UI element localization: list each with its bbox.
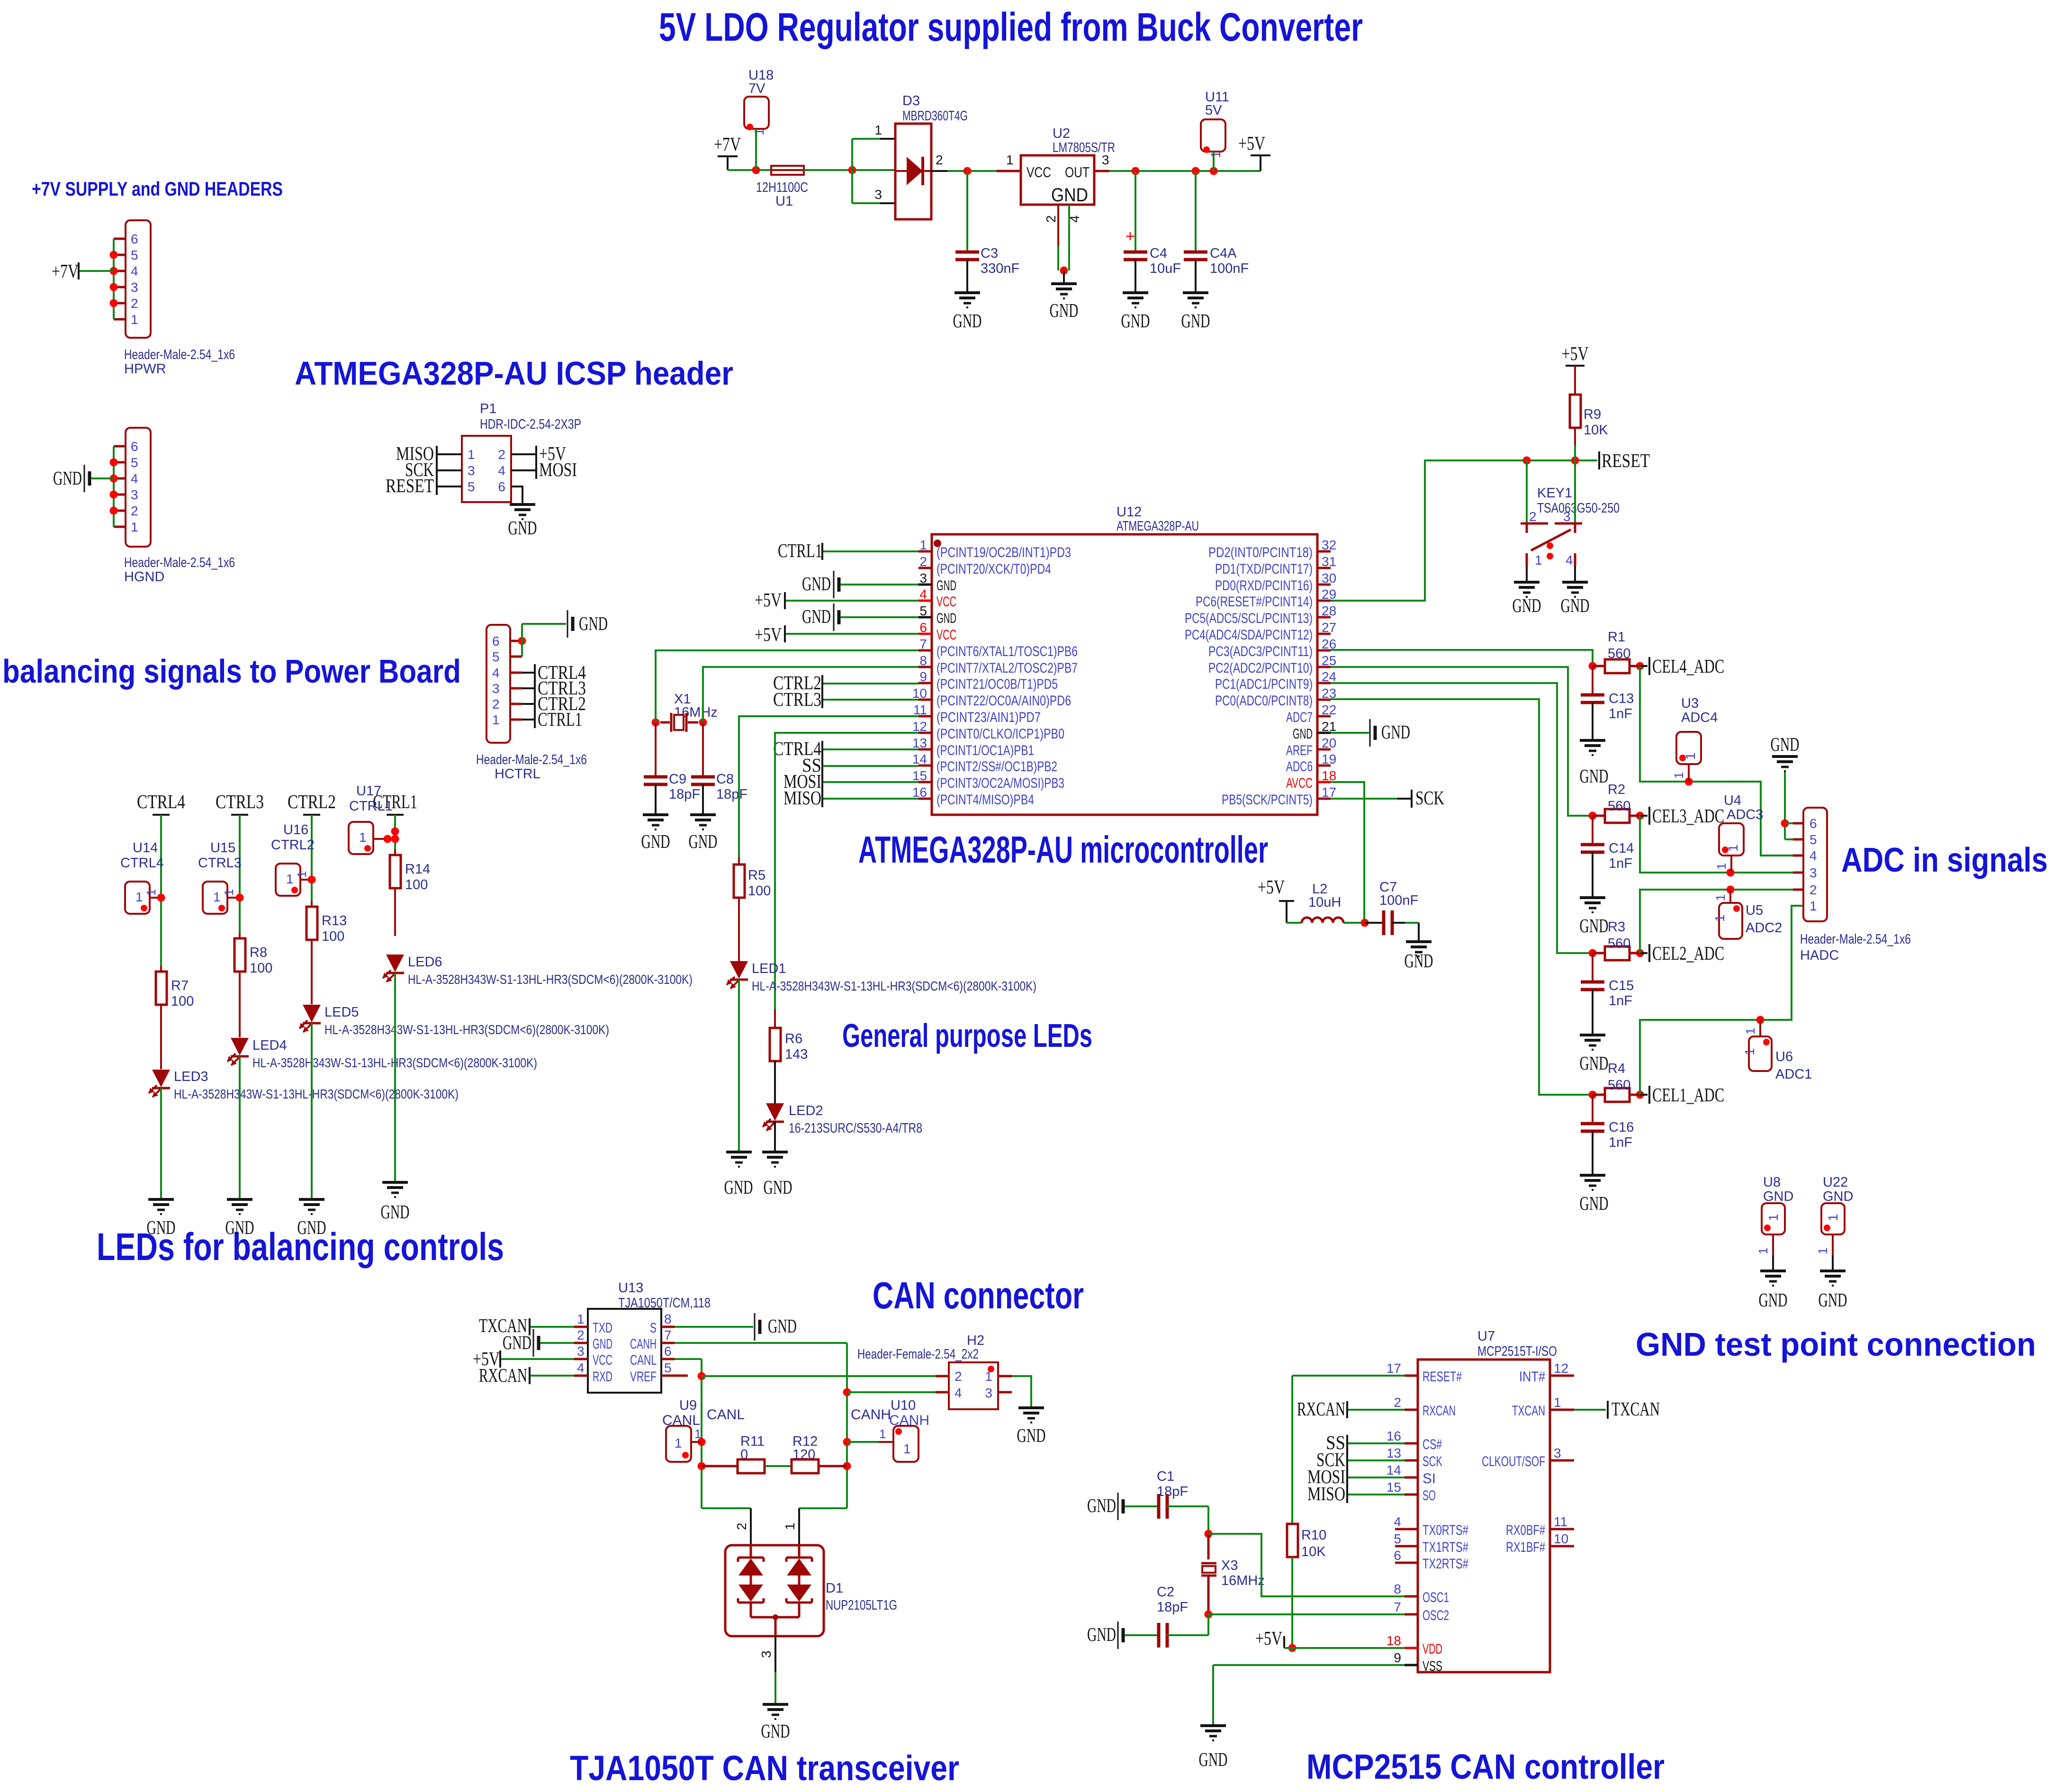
svg-text:HGND: HGND [124,569,164,585]
svg-text:U2: U2 [1053,126,1070,141]
svg-text:SO: SO [1423,1488,1436,1504]
svg-text:4: 4 [954,1386,962,1400]
svg-text:PC0(ADC0/PCINT8): PC0(ADC0/PCINT8) [1215,693,1313,709]
svg-text:1: 1 [879,1427,886,1441]
svg-text:CEL4_ADC: CEL4_ADC [1652,655,1724,677]
svg-text:ADC in signals: ADC in signals [1841,841,2048,879]
svg-text:CTRL1: CTRL1 [349,799,393,814]
svg-text:PC5(ADC5/SCL/PCINT13): PC5(ADC5/SCL/PCINT13) [1185,611,1313,626]
svg-text:7: 7 [919,637,927,651]
svg-text:Header-Male-2.54_1x6: Header-Male-2.54_1x6 [124,347,235,362]
svg-text:MCP2515T-I/SO: MCP2515T-I/SO [1477,1344,1557,1359]
svg-text:RESET#: RESET# [1423,1369,1462,1385]
svg-text:4: 4 [1566,553,1573,567]
svg-text:4: 4 [919,587,927,602]
svg-text:1nF: 1nF [1609,1135,1632,1150]
svg-text:+5V: +5V [755,623,782,645]
svg-text:C2: C2 [1157,1585,1174,1600]
svg-text:PC2(ADC2/PCINT10): PC2(ADC2/PCINT10) [1208,660,1313,676]
svg-text:2: 2 [131,504,138,518]
svg-text:GND: GND [508,517,537,539]
svg-text:(PCINT3/OC2A/MOSI)PB3: (PCINT3/OC2A/MOSI)PB3 [936,775,1064,791]
svg-text:7: 7 [664,1328,672,1342]
svg-text:VCC: VCC [593,1352,612,1368]
svg-text:24: 24 [1322,669,1336,684]
svg-text:2: 2 [734,1522,749,1530]
svg-text:100: 100 [405,877,428,892]
svg-text:TXCAN: TXCAN [1612,1398,1660,1420]
svg-text:CLKOUT/SOF: CLKOUT/SOF [1482,1454,1545,1469]
svg-text:TX2RTS#: TX2RTS# [1423,1556,1468,1572]
svg-text:OSC2: OSC2 [1423,1608,1449,1623]
svg-text:LED2: LED2 [789,1103,823,1118]
svg-text:HADC: HADC [1800,948,1839,963]
svg-text:1: 1 [359,830,367,845]
svg-text:100nF: 100nF [1210,261,1249,276]
svg-text:GND: GND [689,830,718,852]
svg-text:Header-Male-2.54_1x6: Header-Male-2.54_1x6 [476,752,587,767]
svg-text:330nF: 330nF [981,261,1019,276]
svg-text:H2: H2 [967,1333,984,1348]
svg-text:CANH: CANH [889,1413,929,1428]
svg-text:560: 560 [1608,799,1630,814]
svg-text:1: 1 [131,520,138,534]
svg-text:1nF: 1nF [1609,706,1632,721]
svg-text:5V LDO Regulator supplied from: 5V LDO Regulator supplied from Buck Conv… [659,5,1363,49]
svg-text:+5V: +5V [1258,876,1285,898]
svg-text:14: 14 [1387,1463,1401,1477]
svg-text:19: 19 [1322,752,1336,766]
svg-text:U6: U6 [1775,1049,1793,1064]
svg-text:12: 12 [1554,1361,1568,1376]
svg-text:2: 2 [954,1369,962,1384]
svg-text:5: 5 [468,479,475,494]
svg-text:LED5: LED5 [324,1005,359,1020]
svg-text:CANH: CANH [630,1336,657,1352]
svg-text:2: 2 [577,1328,585,1342]
svg-text:VCC: VCC [1026,164,1051,180]
svg-text:9: 9 [919,669,927,684]
svg-text:20: 20 [1322,736,1336,750]
svg-text:15: 15 [912,768,927,783]
svg-text:3: 3 [1554,1446,1561,1460]
svg-text:ATMEGA328P-AU ICSP header: ATMEGA328P-AU ICSP header [295,355,733,392]
svg-text:3: 3 [492,681,500,696]
svg-text:8: 8 [664,1312,672,1326]
svg-text:1: 1 [1766,1214,1781,1221]
svg-text:6: 6 [498,479,505,494]
svg-text:1: 1 [1713,894,1728,901]
svg-text:6: 6 [1810,816,1817,831]
svg-text:15: 15 [1387,1480,1401,1495]
svg-text:5: 5 [131,455,138,470]
svg-text:1: 1 [1756,1248,1770,1254]
svg-text:11: 11 [1554,1514,1567,1529]
svg-text:CTRL1: CTRL1 [778,540,822,561]
svg-text:CS#: CS# [1423,1437,1442,1452]
svg-text:1: 1 [1006,153,1014,167]
svg-text:8: 8 [919,653,927,668]
svg-text:GND: GND [768,1315,797,1337]
svg-text:1nF: 1nF [1609,856,1632,871]
svg-text:R10: R10 [1301,1528,1326,1543]
svg-text:18: 18 [1322,768,1336,783]
svg-text:INT#: INT# [1519,1369,1545,1385]
svg-text:GND test point connection: GND test point connection [1636,1326,2036,1363]
svg-text:2: 2 [936,153,943,167]
svg-text:3: 3 [1810,865,1817,880]
svg-text:TSA063G50-250: TSA063G50-250 [1537,501,1620,516]
svg-text:balancing signals to Power Boa: balancing signals to Power Board [2,653,461,690]
svg-text:CTRL2: CTRL2 [288,791,336,812]
svg-text:1nF: 1nF [1609,993,1632,1009]
svg-text:C4A: C4A [1210,246,1237,261]
svg-text:1: 1 [286,872,294,886]
svg-text:C15: C15 [1609,978,1634,993]
svg-text:RESET: RESET [1602,450,1650,471]
svg-text:CTRL2: CTRL2 [271,837,315,853]
svg-text:CTRL1: CTRL1 [538,708,582,730]
svg-text:1: 1 [468,447,475,462]
svg-text:1: 1 [1742,1048,1757,1055]
svg-text:1: 1 [874,123,882,137]
svg-text:GND: GND [802,605,831,627]
svg-text:560: 560 [1608,646,1630,661]
svg-text:6: 6 [492,634,500,648]
svg-text:(PCINT19/OC2B/INT1)PD3: (PCINT19/OC2B/INT1)PD3 [936,545,1071,560]
svg-text:GND: GND [1561,594,1590,616]
svg-text:16-213SURC/S530-A4/TR8: 16-213SURC/S530-A4/TR8 [789,1121,922,1136]
svg-text:6: 6 [919,620,927,635]
svg-text:CTRL3: CTRL3 [773,688,821,710]
svg-text:25: 25 [1322,653,1336,668]
svg-text:GND: GND [1513,594,1541,616]
svg-text:(PCINT23/AIN1)PD7: (PCINT23/AIN1)PD7 [936,710,1041,725]
svg-text:7V: 7V [748,81,765,96]
svg-text:4: 4 [577,1360,585,1375]
svg-text:Header-Male-2.54_1x6: Header-Male-2.54_1x6 [1800,932,1911,947]
svg-text:29: 29 [1322,587,1336,602]
svg-text:21: 21 [1322,719,1336,734]
svg-text:RXCAN: RXCAN [1423,1403,1456,1419]
svg-text:GND: GND [225,1216,254,1238]
svg-text:(PCINT4/MISO)PB4: (PCINT4/MISO)PB4 [936,792,1034,808]
svg-text:TX0RTS#: TX0RTS# [1423,1522,1468,1538]
svg-text:100nF: 100nF [1379,893,1418,908]
svg-text:100: 100 [171,994,194,1009]
svg-text:(PCINT2/SS#/OC1B)PB2: (PCINT2/SS#/OC1B)PB2 [936,759,1057,774]
svg-text:GND: GND [381,1201,410,1223]
svg-text:3: 3 [874,187,882,202]
svg-text:8: 8 [1394,1582,1401,1596]
svg-text:3: 3 [759,1650,774,1658]
svg-text:R5: R5 [748,868,765,883]
svg-text:GND: GND [641,830,670,852]
svg-text:5: 5 [131,248,138,262]
svg-text:(PCINT7/XTAL2/TOSC2)PB7: (PCINT7/XTAL2/TOSC2)PB7 [936,660,1078,676]
svg-text:D3: D3 [902,93,920,108]
svg-text:LED1: LED1 [752,961,786,976]
svg-text:VDD: VDD [1423,1641,1442,1657]
svg-text:MISO: MISO [783,787,821,809]
svg-text:PC4(ADC4/SDA/PCINT12): PC4(ADC4/SDA/PCINT12) [1185,627,1313,643]
svg-text:C3: C3 [981,246,998,261]
svg-text:U10: U10 [891,1398,916,1413]
svg-text:GND: GND [953,310,982,332]
svg-text:4: 4 [1067,215,1082,223]
svg-text:U16: U16 [283,822,308,837]
svg-text:1: 1 [1554,1395,1561,1410]
svg-text:TXD: TXD [593,1320,612,1336]
svg-text:12H1100C: 12H1100C [756,180,808,195]
svg-text:PD1(TXD/PCINT17): PD1(TXD/PCINT17) [1215,561,1313,577]
svg-text:OUT: OUT [1065,164,1090,180]
svg-text:VSS: VSS [1423,1658,1442,1674]
svg-text:HL-A-3528H343W-S1-13HL-HR3(SDC: HL-A-3528H343W-S1-13HL-HR3(SDCM<6)(2800K… [324,1022,609,1037]
svg-text:HL-A-3528H343W-S1-13HL-HR3(SDC: HL-A-3528H343W-S1-13HL-HR3(SDCM<6)(2800K… [752,979,1036,993]
svg-text:+5V: +5V [1562,342,1589,364]
svg-text:CANL: CANL [707,1407,745,1423]
svg-text:28: 28 [1322,603,1336,618]
svg-text:5V: 5V [1205,103,1222,118]
svg-text:GND: GND [802,573,831,594]
svg-text:LED3: LED3 [174,1069,208,1084]
svg-text:RXD: RXD [593,1369,612,1385]
svg-text:MOSI: MOSI [539,459,577,480]
svg-text:(PCINT6/XTAL1/TOSC1)PB6: (PCINT6/XTAL1/TOSC1)PB6 [936,644,1078,659]
svg-text:PC3(ADC3/PCINT11): PC3(ADC3/PCINT11) [1208,644,1313,659]
svg-text:R9: R9 [1584,407,1601,422]
svg-text:5: 5 [1394,1531,1401,1546]
svg-text:GND: GND [1293,726,1313,742]
svg-text:17: 17 [1387,1361,1401,1376]
svg-text:GND: GND [579,612,608,634]
svg-text:1: 1 [222,889,236,896]
svg-text:GND: GND [1050,299,1079,321]
svg-text:10: 10 [912,686,927,701]
svg-text:GND: GND [1087,1623,1116,1645]
svg-text:1: 1 [1535,553,1542,567]
svg-text:7: 7 [1394,1600,1401,1614]
svg-text:560: 560 [1608,1078,1630,1093]
svg-text:6: 6 [131,232,138,246]
svg-text:GND: GND [1381,721,1410,743]
svg-text:+7V SUPPLY and GND HEADERS: +7V SUPPLY and GND HEADERS [32,178,283,200]
svg-text:+: + [1126,227,1135,245]
svg-text:GND: GND [1017,1424,1046,1446]
svg-text:C8: C8 [716,772,734,787]
svg-text:1: 1 [694,1427,701,1441]
svg-text:1: 1 [1672,772,1686,779]
svg-text:R7: R7 [171,978,189,993]
svg-text:VCC: VCC [936,594,956,610]
svg-text:17: 17 [1322,785,1336,800]
svg-text:MBRD360T4G: MBRD360T4G [902,108,968,124]
svg-text:RXCAN: RXCAN [1297,1398,1345,1420]
svg-text:1: 1 [135,890,143,904]
svg-text:6: 6 [1394,1548,1401,1563]
svg-text:1: 1 [213,890,221,904]
svg-text:GND: GND [1405,950,1433,972]
svg-text:U15: U15 [210,840,235,855]
svg-text:CEL1_ADC: CEL1_ADC [1652,1084,1724,1106]
svg-text:1: 1 [131,312,138,327]
svg-text:C4: C4 [1150,246,1167,261]
svg-text:TXCAN: TXCAN [1512,1403,1545,1419]
svg-text:22: 22 [1322,702,1336,717]
svg-text:16: 16 [1387,1429,1401,1443]
svg-text:3: 3 [1102,153,1109,167]
svg-text:HCTRL: HCTRL [495,766,540,782]
svg-text:PD0(RXD/PCINT16): PD0(RXD/PCINT16) [1215,578,1313,594]
svg-text:VCC: VCC [936,627,956,643]
svg-text:9: 9 [1394,1650,1401,1665]
svg-text:MCP2515 CAN controller: MCP2515 CAN controller [1306,1747,1665,1786]
svg-text:1: 1 [783,1522,797,1530]
svg-text:100: 100 [250,961,272,976]
svg-text:GND: GND [1759,1289,1788,1311]
svg-text:ADC6: ADC6 [1286,759,1313,774]
svg-text:U5: U5 [1746,903,1763,918]
svg-text:GND: GND [1580,915,1609,937]
svg-text:R3: R3 [1608,919,1625,935]
svg-text:HDR-IDC-2.54-2X3P: HDR-IDC-2.54-2X3P [480,417,581,432]
svg-text:C16: C16 [1609,1120,1634,1135]
svg-text:CANH: CANH [851,1407,891,1423]
svg-text:6: 6 [131,439,138,454]
svg-text:RXCAN: RXCAN [479,1364,527,1386]
svg-text:AREF: AREF [1286,743,1313,758]
svg-text:(PCINT22/OC0A/AIN0)PD6: (PCINT22/OC0A/AIN0)PD6 [936,693,1071,709]
svg-text:1: 1 [492,712,500,727]
svg-text:2: 2 [1810,882,1817,897]
svg-text:(PCINT20/XCK/T0)PD4: (PCINT20/XCK/T0)PD4 [936,561,1051,577]
svg-text:TX1RTS#: TX1RTS# [1423,1540,1468,1555]
svg-text:1: 1 [919,538,927,552]
svg-text:LED4: LED4 [252,1038,287,1053]
svg-text:11: 11 [913,702,927,717]
svg-text:6: 6 [664,1344,672,1359]
svg-text:CEL3_ADC: CEL3_ADC [1652,805,1724,827]
svg-text:ADC4: ADC4 [1681,710,1718,725]
svg-text:GND: GND [724,1176,753,1198]
svg-text:PB5(SCK/PCINT5): PB5(SCK/PCINT5) [1222,792,1313,808]
svg-text:GND: GND [1199,1748,1228,1770]
svg-text:GND: GND [1823,1189,1853,1204]
svg-text:1: 1 [1714,863,1729,870]
svg-text:13: 13 [1387,1446,1401,1460]
svg-text:100: 100 [322,929,344,944]
svg-text:14: 14 [912,752,927,766]
svg-text:3: 3 [131,487,138,502]
svg-text:12: 12 [912,719,927,734]
svg-text:R14: R14 [405,862,430,877]
svg-text:16: 16 [912,785,927,800]
svg-text:10K: 10K [1584,423,1608,438]
svg-text:4: 4 [1394,1514,1401,1529]
svg-text:4: 4 [131,264,138,279]
svg-text:PD2(INT0/PCINT18): PD2(INT0/PCINT18) [1208,545,1313,560]
svg-text:18: 18 [1387,1633,1401,1648]
svg-text:100: 100 [748,883,771,899]
svg-text:10: 10 [1554,1531,1568,1546]
svg-text:U3: U3 [1681,696,1699,711]
svg-text:30: 30 [1322,571,1336,585]
svg-text:C13: C13 [1609,691,1634,706]
svg-text:1: 1 [1826,1214,1840,1221]
svg-text:1: 1 [295,871,309,878]
svg-text:3: 3 [131,280,138,295]
svg-text:HL-A-3528H343W-S1-13HL-HR3(SDC: HL-A-3528H343W-S1-13HL-HR3(SDCM<6)(2800K… [408,972,693,987]
svg-text:ATMEGA328P-AU microcontroller: ATMEGA328P-AU microcontroller [858,828,1268,871]
svg-text:5: 5 [919,603,927,618]
svg-text:1: 1 [1712,914,1727,922]
svg-text:+7V: +7V [714,133,741,155]
svg-text:+5V: +5V [755,589,782,611]
svg-text:U1: U1 [775,194,793,209]
svg-text:U22: U22 [1823,1175,1848,1190]
svg-text:GND: GND [764,1176,792,1198]
svg-text:1: 1 [1810,899,1817,913]
svg-text:MISO: MISO [1307,1483,1345,1504]
svg-text:ADC2: ADC2 [1746,920,1782,936]
svg-text:10uF: 10uF [1150,261,1181,276]
svg-text:KEY1: KEY1 [1537,486,1572,501]
svg-text:27: 27 [1322,620,1336,635]
svg-text:2: 2 [919,554,927,569]
svg-text:GND: GND [503,1332,531,1353]
svg-text:ADC1: ADC1 [1775,1067,1812,1082]
svg-text:R8: R8 [250,945,267,960]
svg-text:3: 3 [577,1344,585,1359]
svg-text:GND: GND [761,1720,790,1742]
svg-text:31: 31 [1322,554,1336,569]
svg-text:2: 2 [492,697,500,711]
svg-text:C14: C14 [1609,841,1634,856]
svg-text:CANL: CANL [662,1413,700,1428]
svg-text:GND: GND [1087,1495,1116,1516]
svg-text:1: 1 [903,1441,911,1456]
svg-text:U14: U14 [133,840,158,855]
svg-text:CTRL3: CTRL3 [216,791,264,812]
svg-text:4: 4 [131,471,138,486]
svg-text:U9: U9 [679,1398,697,1413]
svg-text:1: 1 [577,1312,585,1326]
svg-text:CTRL4: CTRL4 [137,791,185,812]
svg-text:Header-Male-2.54_1x6: Header-Male-2.54_1x6 [124,555,235,570]
svg-text:SI: SI [1423,1471,1436,1486]
svg-text:R4: R4 [1608,1061,1625,1076]
svg-text:HL-A-3528H343W-S1-13HL-HR3(SDC: HL-A-3528H343W-S1-13HL-HR3(SDCM<6)(2800K… [174,1087,459,1101]
svg-text:RX1BF#: RX1BF# [1506,1540,1545,1555]
svg-text:U8: U8 [1763,1175,1781,1190]
svg-text:GND: GND [1051,185,1088,206]
svg-text:NUP2105LT1G: NUP2105LT1G [826,1598,897,1613]
svg-text:16MHz: 16MHz [1221,1573,1265,1588]
svg-text:General purpose LEDs: General purpose LEDs [842,1017,1092,1054]
svg-text:18pF: 18pF [1157,1484,1188,1499]
svg-text:5: 5 [1810,832,1817,847]
svg-text:U12: U12 [1117,504,1142,520]
svg-text:U7: U7 [1477,1329,1495,1344]
svg-text:TJA1050T CAN transceiver: TJA1050T CAN transceiver [570,1748,959,1788]
svg-text:R6: R6 [785,1031,802,1046]
svg-text:GND: GND [1763,1189,1793,1204]
svg-text:3: 3 [919,571,927,585]
svg-text:4: 4 [1810,848,1817,863]
svg-text:3: 3 [468,463,475,478]
svg-text:1: 1 [144,889,158,896]
